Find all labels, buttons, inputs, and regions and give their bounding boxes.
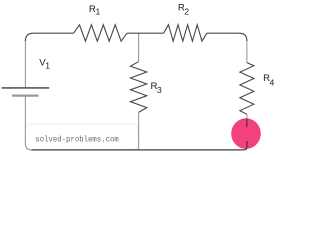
wire top run with corners [25,33,247,41]
svg-text:1: 1 [45,61,50,71]
wire bottom run [31,149,244,151]
svg-text:1: 1 [96,6,101,16]
wire left vertical lower (gray) [25,96,31,150]
wire R4 lead visible over node [246,119,248,128]
wire R4 bottom stub (gray) [246,114,248,119]
svg-text:4: 4 [270,77,275,87]
wire R4 top stub (gray) [246,41,248,63]
svg-text:solved-problems.com: solved-problems.com [35,137,119,145]
resistor R2 zigzag [164,25,207,42]
resistor R1 zigzag [74,25,128,41]
battery V1 top plate [2,87,50,89]
node A stub: junction to R3 (gray wire) [138,34,140,62]
battery V1 bottom plate [12,95,38,97]
wire left vertical upper (gray) [24,40,26,87]
svg-text:3: 3 [157,85,162,95]
wire bottom-right corner over node [244,141,247,150]
node highlight circle (pink) [231,118,261,149]
watermark box [25,124,138,150]
svg-text:2: 2 [184,6,189,16]
resistor R4 zigzag [240,63,254,115]
resistor R3 zigzag [130,62,146,113]
wire R3 bottom stub (gray) [138,112,140,149]
